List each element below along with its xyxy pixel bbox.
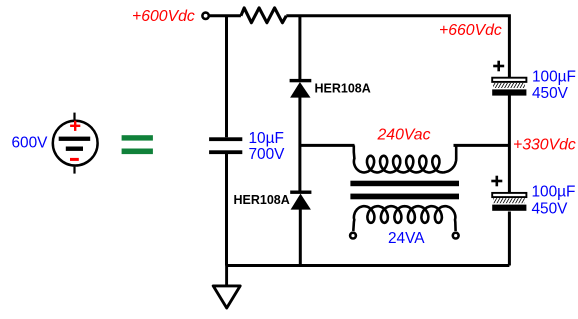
minus mark (red) [70, 158, 79, 161]
wire: stub to primary left [300, 144, 355, 147]
wire: input terminal to resistor [209, 14, 241, 17]
diode D2 HER108A (lower) [290, 191, 311, 210]
capacitor C2 100uF 450V (lower) [491, 176, 502, 187]
resistor [241, 8, 286, 23]
battery long plate [59, 137, 90, 141]
capacitor 10uF 700V [209, 137, 242, 141]
wire: right vertical mid (C1 to +330 node / C2) [508, 95, 511, 193]
svg-text:700V: 700V [249, 146, 286, 163]
svg-text:100µF: 100µF [532, 69, 576, 86]
battery short plate [66, 147, 83, 151]
input terminal [202, 13, 208, 19]
svg-text:+330Vdc: +330Vdc [513, 137, 576, 154]
svg-text:240Vac: 240Vac [377, 126, 431, 143]
svg-text:24VA: 24VA [388, 230, 425, 247]
svg-text:HER108A: HER108A [234, 193, 290, 207]
transformer T1 secondary winding [353, 206, 455, 231]
transformer T1 primary winding [354, 145, 456, 172]
wire: middle vertical mid (D1 to D2) [298, 97, 301, 190]
plus mark (red) inside source [70, 121, 80, 131]
svg-text:600V: 600V [12, 135, 49, 152]
svg-text:450V: 450V [532, 200, 569, 217]
secondary terminal left [350, 233, 356, 239]
secondary terminal right [453, 233, 459, 239]
wire: bottom rail [227, 264, 510, 267]
svg-text:100µF: 100µF [532, 184, 576, 201]
svg-text:10µF: 10µF [249, 130, 284, 147]
svg-text:HER108A: HER108A [315, 82, 371, 96]
ground [213, 266, 240, 309]
wire: left vertical lower (10uF to bottom rail) [225, 154, 228, 266]
transformer core [350, 181, 459, 187]
wire: primary right to +330 node [454, 144, 510, 147]
wire: right vertical bottom (C2 to bottom rail) [508, 212, 511, 266]
svg-text:450V: 450V [532, 85, 569, 102]
capacitor C1 100uF 450V (upper) [493, 61, 504, 72]
wire: middle vertical top (to D1) [298, 16, 301, 79]
wire: left vertical upper (to 10uF) [225, 16, 228, 138]
diode D1 HER108A (upper) [290, 79, 312, 98]
equals sign [122, 135, 153, 154]
voltage source V1 600V [53, 113, 98, 174]
wire: middle vertical bottom (D2 to bottom rail) [299, 210, 302, 266]
svg-text:+600Vdc: +600Vdc [132, 8, 195, 25]
svg-text:+660Vdc: +660Vdc [439, 22, 502, 39]
wire: top right (resistor to +660 corner and down) [286, 16, 509, 78]
